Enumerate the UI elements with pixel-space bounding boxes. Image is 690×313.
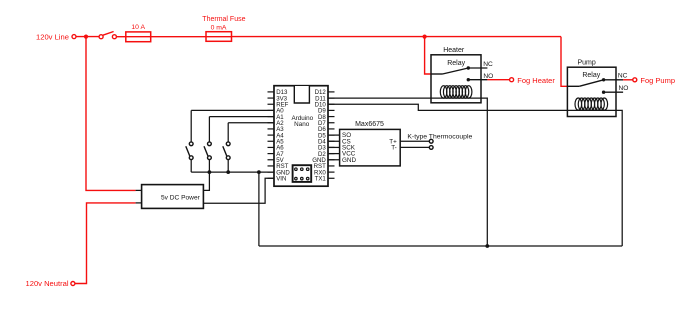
pin A2 left [268,122,275,124]
switch SW2 [208,117,210,142]
wire to A1 [209,116,274,118]
wire Fog Pump [623,79,633,81]
wire to A2 [228,122,274,124]
NO contact [467,78,470,81]
pin A4 left [268,134,275,136]
wire pump coil to GND rail [567,110,622,246]
wire [116,36,126,38]
wire heater coil to GND rail [431,98,487,246]
switch SW1 [190,110,192,141]
wire D11 to heater coil [328,97,431,99]
pin D2 right [328,153,335,155]
wire to pump relay common [561,37,567,87]
terminal Fog Pump [633,78,637,82]
pin 5V left [268,159,275,161]
pin A7 left [268,153,275,155]
wire to A0 [191,109,274,111]
wire T+ [400,140,429,142]
pin 3V3 left [268,97,275,99]
junction dot [423,35,427,39]
heater coil [440,86,447,98]
junction dot [84,35,88,39]
pin A1 left [268,116,275,118]
wire PS 5V out to VIN [203,178,274,203]
svg-text:Fog Pump: Fog Pump [640,76,675,85]
pin D11 right [328,97,335,99]
pin D6 right [328,128,335,130]
svg-text:Max6675: Max6675 [355,121,384,128]
svg-text:10 A: 10 A [131,24,145,31]
svg-text:Nano: Nano [294,121,310,128]
wire PS GND out to switch rail [203,172,209,190]
terminal 120v Neutral [71,282,75,286]
wires Arduino D5-D2,GND to Max6675 [328,134,340,136]
junction dot [257,170,261,174]
svg-text:Relay: Relay [582,72,600,79]
svg-text:GND: GND [342,157,356,164]
relay blade common [431,73,443,75]
NC contact [602,78,605,81]
bottom GND rail [259,245,622,247]
fuse F1 10 A [126,36,151,38]
pin REF left [268,103,275,105]
pin A0 left [268,109,275,111]
svg-text:120v Line: 120v Line [36,33,69,42]
pump relay K2 box [567,67,616,116]
pin D13 left [268,91,275,93]
pin D3 right [328,146,335,148]
wire neutral to power supply [75,203,136,284]
GND wire down to bottom rail [258,172,260,246]
heater relay K1 box [431,55,481,103]
switch SW3 [227,123,229,142]
svg-text:120v Neutral: 120v Neutral [26,279,69,288]
wire [151,36,206,38]
5v DC Power supply PS1 [136,189,142,191]
pin VIN left [268,177,275,179]
junction dot [485,244,489,248]
wire [76,36,99,38]
pin A5 left [268,140,275,142]
svg-text:Heater: Heater [443,47,465,54]
NO contact [602,91,605,94]
pin D4 right [328,140,335,142]
terminal 120v Line [72,35,76,39]
NC contact [467,66,470,69]
svg-text:NC: NC [618,73,628,80]
terminal T- [429,146,433,150]
svg-text:Pump: Pump [577,59,595,66]
pin A3 left [268,128,275,130]
pin RST right [328,165,335,167]
svg-text:VIN: VIN [276,175,286,182]
svg-text:NC: NC [483,61,493,68]
wire to heater relay common [425,37,431,74]
relay blade common [567,85,579,87]
junction dot [226,170,230,174]
svg-text:Thermal Fuse: Thermal Fuse [202,16,245,23]
pin D7 right [328,122,335,124]
junction dot [208,170,212,174]
svg-text:K-type Thermocouple: K-type Thermocouple [407,134,472,141]
pin RX0 right [328,171,335,173]
svg-text:T-: T- [391,145,397,152]
switch S1 main power [99,35,103,39]
pin RST left [268,165,275,167]
wire T- [400,146,429,148]
wire top 120V rail [232,36,562,38]
svg-text:0 mA: 0 mA [211,24,227,31]
svg-text:5v DC Power: 5v DC Power [161,194,201,201]
svg-text:NO: NO [618,85,628,92]
pin TX1 right [328,177,335,179]
pump coil [575,98,582,110]
USB connector [294,86,309,103]
terminal T+ [429,139,433,143]
wire D10 to pump coil [328,104,567,110]
GND rail to Arduino GND pin [191,171,274,173]
pin D9 right [328,109,335,111]
svg-text:TX1: TX1 [315,175,327,182]
pin GND left [268,171,275,173]
fuse F2 thermal [206,36,232,38]
pin D5 right [328,134,335,136]
ICSP header [293,165,312,182]
pin D8 right [328,116,335,118]
svg-text:Fog Heater: Fog Heater [517,76,555,85]
wire Fog Heater [487,79,509,81]
Max6675 U2 [340,129,401,166]
wire line down to power supply [86,37,136,191]
pin D10 right [328,103,335,105]
Arduino Nano U1 [274,86,328,187]
terminal Fog Heater [510,78,514,82]
pin A6 left [268,146,275,148]
svg-text:Relay: Relay [447,60,465,67]
pin GND right [328,159,335,161]
pin D12 right [328,91,335,93]
